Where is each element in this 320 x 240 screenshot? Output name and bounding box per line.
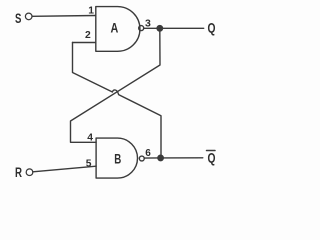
S terminal circle [25,13,32,20]
overbar of Qbar [207,150,216,152]
wire bubble B to node Qbar junction [144,157,158,159]
junction node Q [157,26,163,32]
wire R to gate B pin 5 [33,166,96,172]
wire junction to Qbar label [161,157,203,159]
feedback wire Q to gate B pin 4 [71,28,161,142]
svg-text:A: A [111,20,119,35]
svg-text:S: S [15,11,21,26]
nand gate B body [96,138,137,178]
R terminal circle [26,169,33,176]
svg-text:2: 2 [85,30,91,41]
wire bubble A to node Q junction [144,27,159,29]
svg-text:Q: Q [208,151,216,166]
svg-text:3: 3 [145,17,151,29]
gate B output bubble [139,156,144,161]
feedback wire gate A pin 2 to node Qbar (with hop over) [73,43,162,158]
nand gate A body [96,7,140,52]
pin 2 stub of gate A [73,42,96,44]
svg-text:Q: Q [208,20,216,35]
svg-text:4: 4 [87,132,93,143]
svg-text:R: R [15,165,22,180]
gate A output bubble [139,26,144,31]
wire S to gate A pin 1 [32,15,96,18]
wire junction to Q label [160,27,204,29]
svg-text:5: 5 [86,158,92,169]
svg-text:1: 1 [88,6,94,17]
svg-text:B: B [114,151,121,166]
junction node Qbar [158,155,164,161]
